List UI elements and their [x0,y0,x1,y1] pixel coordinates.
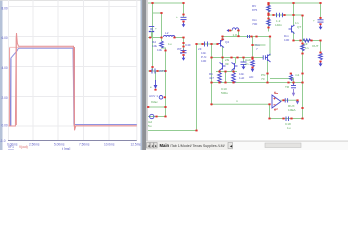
svg-text:875: 875 [252,8,257,12]
op-amp U1 [272,92,281,112]
ground arrow G2 [182,56,186,61]
svg-text:1.8: 1.8 [233,33,238,37]
y labels [0,7,8,144]
wire opamp out [281,99,298,101]
junction J48 [251,44,253,46]
svg-text:1u: 1u [287,126,291,130]
wire h y107 [149,106,166,108]
label C10 [221,87,228,95]
resistor R13 [319,53,323,60]
label G2 [148,120,152,128]
junction J57 [268,103,270,105]
junction J5 [182,21,184,23]
capacitor C1 [181,17,187,19]
junction J9 [182,37,184,39]
wire rail x161 [161,13,163,41]
svg-text:WT1: WT1 [159,69,166,73]
svg-text:5u: 5u [148,124,152,128]
transistor Q6 [232,63,238,71]
svg-text:10EA: 10EA [288,108,297,112]
wire x320 mid [320,41,322,54]
junction J69 [267,18,269,20]
capacitor C3 input [152,69,155,74]
junction J80 [301,53,303,55]
label Dm [284,34,289,42]
junction J8 [160,37,162,39]
wire src col x155 [155,71,157,80]
ac source V1 [150,114,154,118]
junction J75 [292,40,294,42]
label RUX [288,104,297,112]
svg-text:t [ms]: t [ms] [62,147,70,150]
svg-text:QT: QT [297,25,301,29]
resistor R8 [218,73,222,84]
wire Q4 emitter down [222,47,224,58]
junction J14 [164,50,166,52]
junction J52 [301,82,303,84]
svg-text:B: B [180,51,182,55]
svg-text:1n: 1n [295,21,299,25]
wire x293 drop [293,79,295,85]
red trace [9,33,137,130]
junction J49 [266,73,268,75]
junction J59 [296,99,298,101]
junction J20 [164,96,166,98]
junction J87 [301,15,303,17]
svg-text:L2: L2 [165,31,169,35]
junction J78 [319,40,321,42]
svg-text:6.00: 6.00 [2,36,8,40]
ground arrow G5 [319,61,323,67]
capacitor C6 [241,62,247,65]
junction J90 [218,71,220,73]
x labels [7,143,141,147]
junction J38 [230,57,232,59]
junction J44 [218,82,220,84]
wire x183 mid [183,38,185,51]
wire top-left horizontal [149,2,184,4]
junction J45 [224,82,226,84]
current source I1 [154,80,158,89]
label WT1B [177,47,185,55]
svg-text:2n: 2n [245,62,249,66]
ground arrow G4 [319,25,323,30]
wire h y82 [212,82,303,84]
junction J74 [292,14,294,16]
junction J83 [319,52,321,54]
label 2N3906 [225,58,229,66]
svg-text:7: 7 [256,47,258,51]
junction J32 [250,36,252,38]
label Rm700 [252,18,257,26]
junction J39 [236,57,238,59]
junction J84 [319,61,321,63]
wire q6 stub [235,58,237,64]
junction J67 [267,4,269,6]
svg-text:ACV 1: ACV 1 [149,94,158,98]
junction J86 [229,30,231,32]
transistor Q4 [218,39,224,48]
junction J72 [272,14,274,16]
junction J46 [224,71,226,73]
svg-text:100: 100 [284,38,289,42]
junction J77 [310,40,312,42]
ac source symbol V2 [159,96,163,100]
wire h y37 left [149,37,163,39]
wire jog x160-165 [162,47,166,49]
junction J36 [210,57,212,59]
inductor L3 [232,28,238,30]
wire rail x196 [196,44,198,131]
resistor R15 [290,75,293,81]
grid [8,0,137,140]
capacitor C8 [318,20,324,22]
wire h y71 tops [217,71,237,73]
wire stub h y13 [153,12,162,14]
junction J28 [210,43,212,45]
label TR [285,73,300,89]
wire h y116 [149,116,166,118]
junction J70 [267,27,269,29]
wire h y105 into opamp [212,103,270,105]
svg-text:V(out): V(out) [19,145,28,149]
inductor L2 [277,13,283,17]
wire h y78 [271,78,294,80]
wire h y45 [253,44,266,46]
junction J56 [210,103,212,105]
svg-text:Main: Main [160,143,170,148]
resistor R9 [232,73,236,84]
svg-text:1u: 1u [168,42,172,46]
resistor R11 [303,39,311,42]
svg-text:Q4: Q4 [225,40,229,44]
svg-text:10k: 10k [157,48,162,52]
junction J76 [299,40,301,42]
junction J10 [182,42,184,44]
junction J29 [216,43,218,45]
svg-text:2.50ms: 2.50ms [29,143,40,147]
svg-text:10.0ms: 10.0ms [104,143,115,147]
capacitor C5 [205,42,208,47]
junction J53 [292,82,294,84]
junction J33 [255,36,257,38]
junction J17 [156,70,158,72]
junction J37 [221,57,223,59]
junction J30 [221,36,223,38]
svg-text:500u: 500u [221,91,228,95]
junction J54 [266,82,268,84]
junction J73 [283,14,285,16]
wire x302 upper [302,15,304,41]
svg-text:m1: m1 [295,73,300,77]
trace vertical edge accents [10,37,75,129]
capacitor C9 out [285,98,287,102]
svg-text:5.00ms: 5.00ms [54,143,65,147]
junction J47 [232,82,234,84]
svg-text:100: 100 [201,59,206,63]
wire x270 collector [269,37,271,56]
svg-text:0.00: 0.00 [2,124,8,128]
resistor R4 [267,19,271,26]
junction J7 [173,37,175,39]
junction J64 [267,2,269,4]
junction J11 [182,46,184,48]
transistor Q8 [266,54,271,62]
label Vm [255,43,260,51]
label RV875 [252,4,257,12]
wire cap x243 [243,58,245,63]
label 12-140n [275,19,282,27]
label Av2n [245,58,252,66]
junction J2 [182,2,184,4]
junction J19 [154,89,156,91]
junction J71 [267,14,269,16]
pink input pulse trace [9,47,137,126]
wire h y57 [212,57,264,59]
wire top-right h y3 [269,2,321,4]
inductor L2 [164,35,175,37]
wires drawn in green [149,3,321,131]
resistor R12 [301,44,305,51]
label R8 [209,72,214,80]
junction J6 [149,37,151,39]
label pF1n [304,42,309,50]
junction J79 [301,43,303,45]
transistor Q7 [289,25,295,34]
junction J43 [210,82,212,84]
junction J40 [242,57,244,59]
svg-text:4k7: 4k7 [209,76,214,80]
svg-text:8.00: 8.00 [2,7,8,11]
junction J31 [221,38,223,40]
wire rail x165 [165,48,167,117]
wire q6 emitter [233,70,235,72]
wire x293 collector [293,3,295,25]
junction J15 [151,66,153,68]
junction J63 [301,118,303,120]
junction J18 [164,70,166,72]
ground arrow G6 [251,68,255,73]
transistor Q5 [220,63,226,71]
svg-text:1u0: 1u0 [239,76,244,80]
battery B1 [149,27,154,38]
wire rail x211 [211,44,213,105]
junction J91 [232,71,234,73]
junction J22 [155,116,157,118]
junction J66 [319,2,321,4]
svg-text:◄: ◄ [147,144,150,148]
junction J58 [282,99,284,101]
wire x293 emitter [293,32,295,41]
junction J61 [282,118,284,120]
svg-text:12.5ms: 12.5ms [131,143,142,147]
wire x302 rail [302,41,304,119]
wire loop bottom [270,118,303,120]
capacitor C11 [291,83,296,88]
blue trace [9,48,137,126]
svg-text:7.50ms: 7.50ms [79,143,90,147]
label C5 [198,47,206,55]
svg-text:◄: ◄ [229,144,233,149]
svg-text:VF1: VF1 [8,145,14,149]
svg-text:+: + [313,19,315,23]
svg-text:1n: 1n [305,46,309,50]
junction J41 [251,57,253,59]
svg-text:700: 700 [252,22,257,26]
resistor R3 [267,5,271,12]
resistor R2 [160,41,164,48]
diode D1 arrow [227,29,230,32]
svg-text:C4F: C4F [185,43,191,47]
junction J24 [147,106,149,108]
junction J26 [195,43,197,45]
label R9v [239,72,244,80]
wire h y37 right [174,37,184,39]
junction J4 [182,14,184,16]
junction J42 [269,36,271,38]
svg-text:-1.0: -1.0 [0,139,6,143]
junction J68 [267,13,269,15]
wire mid vertical x225 [225,72,227,83]
wire loop left [269,104,271,118]
junction J35 [251,67,253,69]
wire x252 [252,37,254,58]
junction J23 [164,116,166,118]
wire q5 stub [222,58,224,64]
capacitor C2 [181,51,187,53]
wire q5 emitter [219,70,221,72]
axis line [8,140,137,142]
label Ru [261,73,265,81]
junction J12 [182,51,184,53]
wire h y40 [294,40,321,42]
wire h y36 [223,36,271,38]
capacitor C7 [263,55,265,59]
junction J1 [151,2,153,4]
junction J34 [251,58,253,60]
svg-text:70: 70 [261,77,265,81]
svg-text:9Vac: 9Vac [151,100,158,104]
junction J25 [195,130,197,132]
diode top wire [230,30,233,32]
junction J13 [182,54,184,56]
probe arrow P2 out [296,100,299,104]
junction J27 [201,43,203,45]
junction J51 [301,73,303,75]
resistor R10 [251,60,255,67]
wire x320 top [320,3,322,19]
svg-text:/Tab 1/Model/ Texas Supplies /: /Tab 1/Model/ Texas Supplies /LM/ [170,144,225,148]
svg-text:◄: ◄ [151,144,154,148]
wire bottom return [149,130,197,132]
wire q8 down [267,61,269,83]
ground arrow G1 [182,23,186,28]
svg-text:OUT: OUT [312,44,319,48]
junction J88 [237,30,239,32]
junction J81 [319,17,321,19]
junction J65 [292,2,294,4]
svg-text:140n: 140n [275,23,282,27]
label Rb [152,40,157,48]
ground arrow G3 [242,65,246,70]
label ACV1 [149,94,158,98]
wire input cap h y71 [149,70,166,72]
svg-text:n: n [236,99,238,103]
wire left rail V1 [152,3,154,71]
wire x268 r-chain [268,3,270,31]
junction J82 [319,23,321,25]
svg-text:2.00: 2.00 [2,96,8,100]
schematic labels [148,4,319,130]
wire x183 top [183,3,185,17]
junction J16 [149,70,151,72]
capacitor C10 loop [286,117,289,122]
svg-text:4.00: 4.00 [2,66,8,70]
wire loop right [302,104,304,119]
svg-text:+: + [176,15,178,19]
junction J89 [237,35,239,37]
label PN100 [201,55,206,63]
junction J21 [164,106,166,108]
label C18 [285,122,291,130]
svg-text:AD: AD [249,75,254,79]
series element E1 [248,35,250,38]
junction J55 [287,82,289,84]
wire collector Q4 up [222,36,224,40]
junction J60 [268,118,270,120]
wire h y44 [197,43,219,45]
svg-text:39: 39 [225,62,229,66]
junction J50 [290,73,292,75]
wire h y16 [269,14,303,16]
junction J85 [301,107,303,109]
junction J62 [290,118,292,120]
label L2 [165,31,172,46]
probe arrow P1 [292,89,295,97]
svg-text:e: e [150,85,152,89]
svg-text:+: + [155,27,157,31]
svg-text:►: ► [154,144,157,148]
junction J3 [160,12,162,14]
